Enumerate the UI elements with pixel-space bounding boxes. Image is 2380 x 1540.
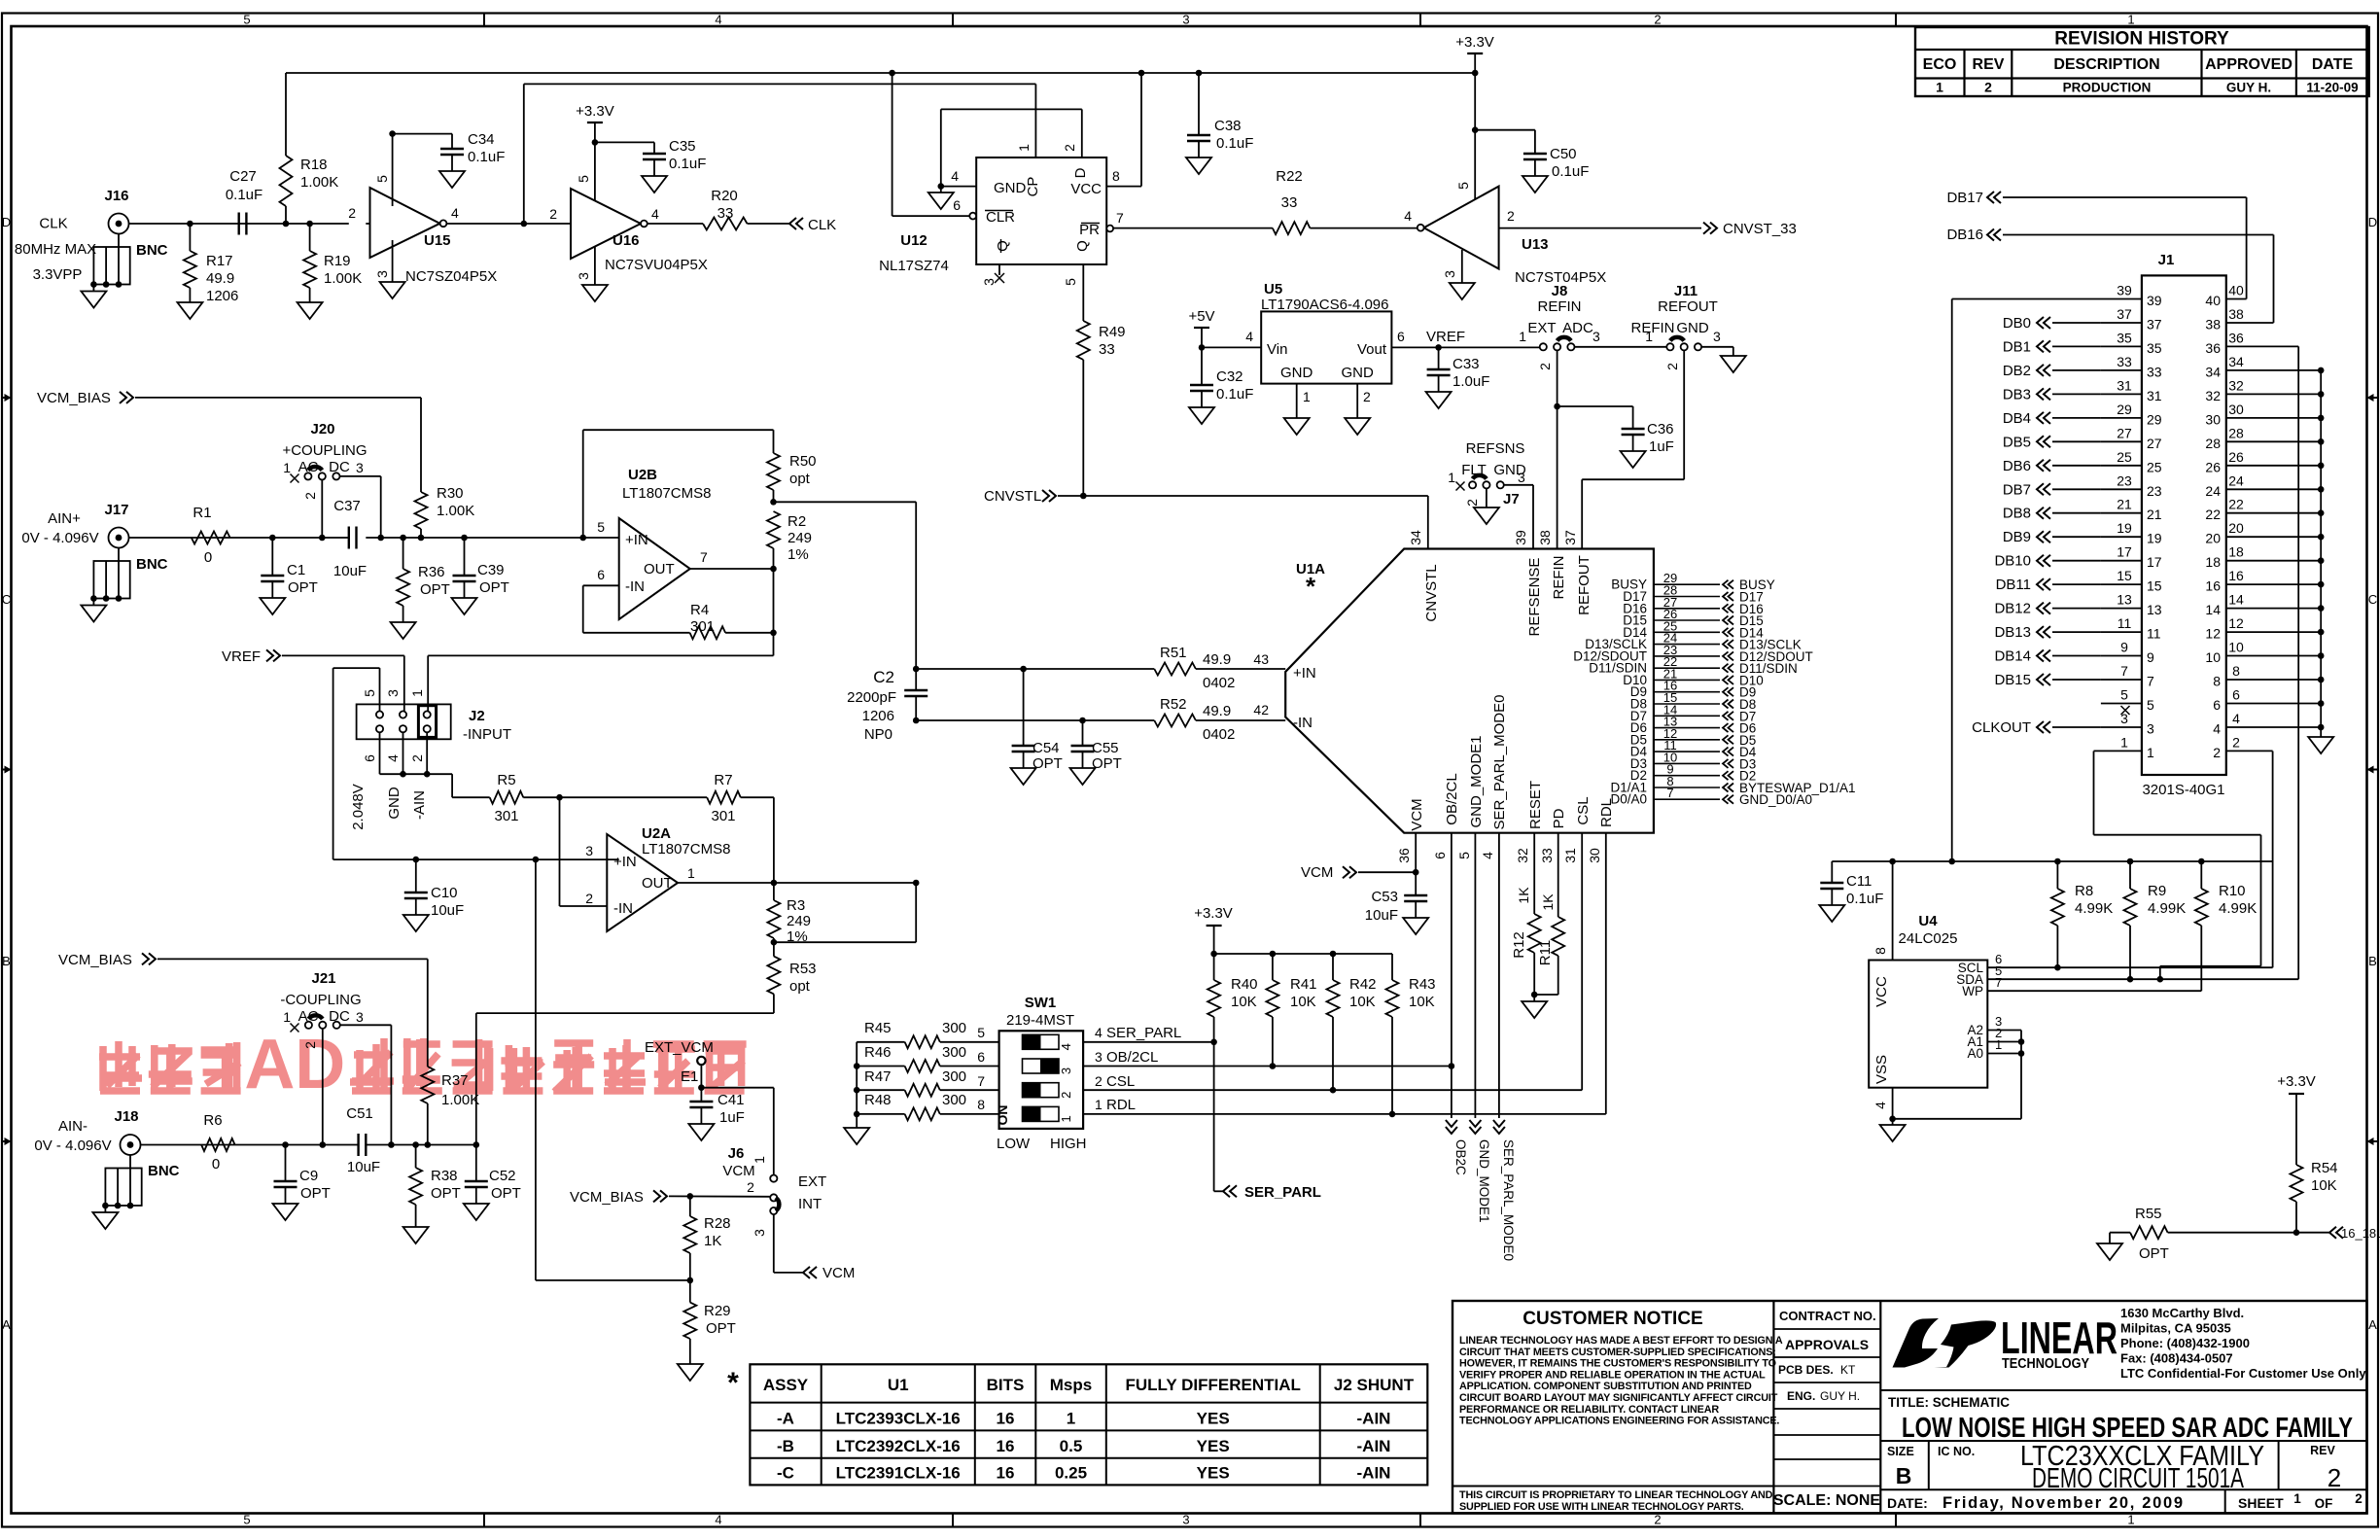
capacitor C54 xyxy=(1012,669,1063,772)
svg-text:2: 2 xyxy=(1654,1513,1661,1527)
svg-text:DB5: DB5 xyxy=(2003,434,2031,450)
svg-text:R47: R47 xyxy=(864,1068,892,1085)
pin 19 J1 left xyxy=(2003,520,2162,546)
svg-text:5: 5 xyxy=(1456,852,1472,859)
node C2 out junction xyxy=(913,880,920,887)
power symbol +3.3V R54 xyxy=(2277,1073,2316,1165)
svg-text:C53: C53 xyxy=(1371,889,1398,905)
svg-text:+5V: +5V xyxy=(1188,308,1214,325)
svg-text:4: 4 xyxy=(715,13,721,27)
pin 7 J1 left xyxy=(1994,663,2154,689)
wire +5V to U5 xyxy=(1202,346,1261,348)
svg-text:219-4MST: 219-4MST xyxy=(1006,1012,1074,1029)
svg-text:7: 7 xyxy=(977,1073,985,1089)
switch rocker 2 SW1 xyxy=(1023,1083,1074,1099)
svg-text:J7: J7 xyxy=(1503,491,1520,507)
svg-text:2200pF: 2200pF xyxy=(847,689,896,706)
svg-text:2: 2 xyxy=(302,492,318,500)
svg-text:R18: R18 xyxy=(300,157,328,173)
svg-text:0: 0 xyxy=(204,549,212,566)
ground U12 pin4 xyxy=(928,192,954,209)
svg-text:*: * xyxy=(1306,572,1316,601)
pin 4 SER_PARL_MODE0 U1A xyxy=(1480,695,1508,1118)
svg-text:1: 1 xyxy=(1645,329,1653,344)
wire VCM_BIAS middle xyxy=(157,959,428,1056)
svg-text:38: 38 xyxy=(2228,306,2244,322)
net label AIN+ input xyxy=(21,510,98,546)
pin 34 J1 right xyxy=(2205,354,2324,380)
svg-text:+IN: +IN xyxy=(625,532,648,548)
svg-text:4: 4 xyxy=(2232,711,2240,726)
svg-text:4.99K: 4.99K xyxy=(2148,900,2186,917)
resistor R29 xyxy=(683,1280,736,1364)
node J8-C36 junction xyxy=(1554,403,1560,410)
svg-text:opt: opt xyxy=(789,978,811,995)
svg-text:29: 29 xyxy=(2147,411,2162,427)
svg-text:36: 36 xyxy=(2205,340,2221,356)
svg-text:40: 40 xyxy=(2205,293,2221,308)
svg-text:0.1uF: 0.1uF xyxy=(226,187,262,203)
svg-text:40: 40 xyxy=(2228,283,2244,298)
pin 27 J1 left xyxy=(2003,425,2162,451)
svg-text:J1: J1 xyxy=(2158,252,2175,268)
title section xyxy=(1880,1390,2366,1444)
pin 32 J1 right xyxy=(2205,377,2324,403)
resistor R5 xyxy=(490,772,524,824)
net label CLK input xyxy=(15,216,96,284)
svg-text:0402: 0402 xyxy=(1203,726,1235,743)
svg-text:10uF: 10uF xyxy=(1365,907,1398,924)
svg-text:19: 19 xyxy=(2147,531,2162,546)
svg-text:CIRCUIT THAT MEETS CUSTOMER-SU: CIRCUIT THAT MEETS CUSTOMER-SUPPLIED SPE… xyxy=(1459,1347,1776,1358)
svg-text:1: 1 xyxy=(687,865,695,881)
net tag VREF to J2 xyxy=(222,648,280,665)
svg-text:R55: R55 xyxy=(2135,1206,2162,1222)
ground R17 xyxy=(177,302,202,319)
svg-text:REFOUT: REFOUT xyxy=(1576,555,1592,615)
svg-text:-AIN: -AIN xyxy=(1357,1410,1391,1428)
wire J1 pin2 vertical xyxy=(2272,752,2274,968)
pin +IN U1A xyxy=(1253,651,1315,682)
svg-text:34: 34 xyxy=(2205,364,2221,379)
svg-text:C37: C37 xyxy=(333,498,361,514)
svg-text:4: 4 xyxy=(1245,329,1253,344)
svg-text:1: 1 xyxy=(2120,734,2128,750)
svg-text:1uF: 1uF xyxy=(1649,438,1674,455)
svg-text:5: 5 xyxy=(576,175,591,183)
svg-text:16: 16 xyxy=(2205,578,2221,594)
pin 23 J1 left xyxy=(2003,472,2162,499)
svg-text:33: 33 xyxy=(1539,848,1555,863)
ground C11 xyxy=(1819,905,1844,922)
node CSL R42 xyxy=(1330,1087,1337,1094)
wire CLK after C27 xyxy=(366,223,369,225)
ADC U1A outline xyxy=(1285,549,1654,833)
node J2 pin2 common xyxy=(424,771,431,778)
pin 1 J1 left xyxy=(2094,734,2155,760)
node +5V junction xyxy=(1199,344,1206,351)
svg-text:REFSNS: REFSNS xyxy=(1466,440,1525,457)
svg-text:U15: U15 xyxy=(424,232,451,249)
svg-text:1: 1 xyxy=(1519,329,1526,344)
net tag VCM out xyxy=(803,1265,855,1281)
resistor R11 xyxy=(1537,893,1564,995)
svg-text:10: 10 xyxy=(2205,649,2221,665)
svg-text:EXT: EXT xyxy=(798,1173,826,1190)
svg-text:23: 23 xyxy=(2117,472,2132,488)
ground SW1 bus xyxy=(844,1128,869,1144)
svg-text:3: 3 xyxy=(385,689,401,697)
node R18-R19 junction xyxy=(306,221,313,227)
pin 20 J1 right xyxy=(2205,520,2324,546)
svg-text:1: 1 xyxy=(283,1009,291,1025)
switch rocker 3 SW1 xyxy=(1023,1059,1074,1074)
wire WP line xyxy=(1987,990,2201,992)
node rail R42 xyxy=(1330,951,1337,958)
svg-text:1K: 1K xyxy=(704,1233,721,1249)
svg-text:OPT: OPT xyxy=(1092,755,1122,772)
resistor R40 xyxy=(1207,976,1257,1042)
capacitor C50 xyxy=(1523,130,1589,180)
node CNVSTL-R49 junction xyxy=(1080,493,1087,500)
svg-text:+3.3V: +3.3V xyxy=(2277,1073,2316,1090)
title block outline xyxy=(1452,1301,2367,1513)
svg-text:7: 7 xyxy=(2120,663,2128,679)
svg-text:DB11: DB11 xyxy=(1996,577,2031,593)
wire U4 VCC pin8 xyxy=(1892,861,1894,961)
svg-text:1206: 1206 xyxy=(206,288,238,304)
svg-text:DATE:: DATE: xyxy=(1887,1495,1928,1511)
node C27-R18 junction xyxy=(283,221,290,227)
wire U12 CP pin1 xyxy=(1034,84,1036,157)
node RDL R43 xyxy=(1389,1111,1396,1118)
svg-text:1.00K: 1.00K xyxy=(300,174,338,191)
svg-text:35: 35 xyxy=(2147,340,2162,356)
op-amp U15 inverter xyxy=(348,175,497,285)
resistor R19 xyxy=(303,224,362,302)
zone tick marks bottom xyxy=(484,1514,1896,1527)
net tag VCM_BIAS top xyxy=(37,390,133,406)
ground R29 xyxy=(678,1364,703,1381)
capacitor C55 xyxy=(1071,720,1122,772)
ground R12 xyxy=(1522,1001,1547,1018)
wire SDA line xyxy=(1987,978,2298,980)
svg-text:29: 29 xyxy=(2117,402,2132,417)
svg-text:2: 2 xyxy=(1062,144,1077,152)
svg-text:R51: R51 xyxy=(1160,645,1187,661)
wire R5 to junction xyxy=(523,796,559,798)
svg-text:24: 24 xyxy=(2205,483,2221,499)
wire J11 gnd stub xyxy=(1732,347,1734,356)
pin 24 J1 right xyxy=(2205,472,2324,499)
svg-text:3: 3 xyxy=(1518,470,1525,485)
svg-text:30: 30 xyxy=(2228,402,2244,417)
flip-flop U12 NL17SZ74 xyxy=(951,144,1124,286)
svg-text:DC: DC xyxy=(329,459,350,475)
svg-text:C1: C1 xyxy=(287,562,305,578)
svg-text:1: 1 xyxy=(1067,1410,1075,1428)
svg-text:4: 4 xyxy=(385,754,401,762)
node bus R46 xyxy=(854,1063,860,1069)
capacitor C9 xyxy=(274,1145,331,1205)
svg-text:1: 1 xyxy=(2127,1513,2134,1527)
wire SCL line xyxy=(1987,966,2272,968)
svg-text:1: 1 xyxy=(2293,1491,2301,1506)
node J2 pin4 common xyxy=(400,771,406,778)
capacitor C11 xyxy=(1820,861,1883,907)
pin 26 J1 right xyxy=(2205,449,2324,475)
svg-text:0.5: 0.5 xyxy=(1060,1437,1083,1455)
test point E1 EXT_VCM xyxy=(645,1039,714,1088)
svg-text:12: 12 xyxy=(2205,626,2221,642)
resistor R49 xyxy=(1077,321,1126,496)
svg-text:3: 3 xyxy=(356,460,364,475)
pin 9 D2 U1A right xyxy=(1630,762,1757,784)
svg-text:1: 1 xyxy=(2127,13,2134,27)
node U4 pin4 junction xyxy=(1889,1116,1896,1123)
svg-text:16: 16 xyxy=(997,1437,1015,1455)
svg-text:REFOUT: REFOUT xyxy=(1658,298,1718,315)
svg-text:5: 5 xyxy=(2147,697,2154,713)
svg-text:3: 3 xyxy=(1442,270,1457,278)
svg-text:2: 2 xyxy=(1664,363,1680,370)
svg-text:3: 3 xyxy=(1713,329,1721,344)
switch rocker 4 SW1 xyxy=(1023,1034,1074,1050)
svg-text:49.9: 49.9 xyxy=(1203,651,1231,668)
svg-text:R4: R4 xyxy=(690,602,709,618)
svg-text:CP: CP xyxy=(1025,177,1041,197)
svg-text:R38: R38 xyxy=(431,1168,458,1184)
svg-text:1.00K: 1.00K xyxy=(441,1092,479,1108)
svg-text:GUY H.: GUY H. xyxy=(2226,81,2271,95)
connector J18 BNC jack xyxy=(92,1135,141,1229)
watermark red text xyxy=(99,1026,747,1103)
capacitor C35 xyxy=(643,138,706,176)
net flag SER_PARL_MODE0 down xyxy=(1493,1120,1516,1261)
node rail R10 xyxy=(2198,858,2205,865)
net tag CNVSTL xyxy=(984,488,1056,505)
svg-text:5: 5 xyxy=(597,519,605,535)
ground R55 xyxy=(2097,1233,2122,1260)
node OB2CL R41 xyxy=(1270,1063,1277,1069)
wire U5 gnd pin1 xyxy=(1296,384,1298,418)
svg-text:C39: C39 xyxy=(477,562,505,578)
svg-text:REV: REV xyxy=(1973,56,2005,73)
ground U5 pin1 xyxy=(1284,418,1310,435)
pin 22 D11/SDIN U1A right xyxy=(1589,654,1798,676)
svg-text:J16: J16 xyxy=(104,188,128,204)
wire U15 out to U16 xyxy=(446,223,571,225)
ground C53 xyxy=(1403,918,1428,934)
svg-text:VCM_BIAS: VCM_BIAS xyxy=(58,952,132,968)
svg-text:7: 7 xyxy=(2147,674,2154,689)
svg-text:D: D xyxy=(295,1026,345,1103)
node A0 junction xyxy=(2018,1050,2025,1057)
wire U2A +IN long vertical xyxy=(536,859,690,1280)
svg-text:LOW: LOW xyxy=(997,1136,1031,1152)
svg-text:IC NO.: IC NO. xyxy=(1938,1445,1975,1458)
svg-text:3: 3 xyxy=(752,1229,767,1237)
svg-text:INT: INT xyxy=(798,1196,822,1212)
wire R4 to node xyxy=(725,632,773,634)
svg-text:C50: C50 xyxy=(1550,146,1577,162)
svg-text:C41: C41 xyxy=(717,1092,745,1108)
svg-text:CLK: CLK xyxy=(808,217,836,233)
svg-text:4: 4 xyxy=(2213,721,2221,737)
resistor R22 xyxy=(1273,168,1311,234)
svg-text:Vin: Vin xyxy=(1267,341,1287,358)
capacitor C41 xyxy=(689,1088,744,1126)
svg-text:0.1uF: 0.1uF xyxy=(1552,163,1589,180)
node pin1-SDA junction xyxy=(2157,976,2164,983)
svg-text:C: C xyxy=(2,592,11,607)
wire J20 pin3 jog xyxy=(340,476,381,538)
svg-text:J18: J18 xyxy=(114,1108,138,1125)
wire U16 power to C35 xyxy=(595,141,654,143)
wire U13 pin3 gnd xyxy=(1461,250,1463,283)
pin 8 D1/A1 U1A right xyxy=(1610,774,1855,795)
svg-text:R8: R8 xyxy=(2075,883,2093,899)
node C2 top junction xyxy=(913,666,920,673)
wire J11 pin2 down xyxy=(1683,350,1685,479)
net tag DB16 xyxy=(1946,227,2273,323)
svg-text:DB8: DB8 xyxy=(2003,506,2031,522)
svg-text:21: 21 xyxy=(2117,497,2132,512)
svg-text:J21: J21 xyxy=(311,970,335,987)
svg-text:C32: C32 xyxy=(1216,368,1243,385)
svg-text:BITS: BITS xyxy=(987,1376,1025,1394)
svg-text:DB16: DB16 xyxy=(1946,227,1983,243)
wire AIN+ after C37 xyxy=(366,537,618,539)
capacitor C52 xyxy=(465,1145,521,1205)
node +3.3V rail CLR drop xyxy=(889,70,895,77)
svg-text:OPT: OPT xyxy=(300,1185,331,1202)
svg-text:LTC2391CLX-16: LTC2391CLX-16 xyxy=(836,1464,961,1483)
customer notice text xyxy=(1452,1309,1783,1513)
node C10 junction xyxy=(413,857,420,863)
svg-text:4.99K: 4.99K xyxy=(2075,900,2113,917)
wire R22 to U13 xyxy=(1310,227,1417,229)
net tag VCM_BIAS bottom xyxy=(570,1189,667,1206)
svg-text:DESCRIPTION: DESCRIPTION xyxy=(2053,56,2159,73)
revision history table xyxy=(1915,27,2369,96)
svg-text:1630 McCarthy Blvd.: 1630 McCarthy Blvd. xyxy=(2120,1306,2244,1320)
svg-text:31: 31 xyxy=(1562,848,1578,863)
svg-text:25: 25 xyxy=(2147,459,2162,474)
node R7-R3 out junction xyxy=(771,880,778,887)
svg-text:1: 1 xyxy=(2147,745,2154,760)
power symbol +3.3V U16 xyxy=(576,103,614,142)
resistor R2 xyxy=(767,511,812,569)
svg-text:1: 1 xyxy=(1936,80,1943,95)
svg-text:36: 36 xyxy=(2228,330,2244,345)
svg-text:E1: E1 xyxy=(681,1068,698,1085)
pin 3 J1 left xyxy=(1972,711,2154,737)
svg-text:C35: C35 xyxy=(669,138,696,155)
svg-text:301: 301 xyxy=(494,808,518,824)
svg-text:R12: R12 xyxy=(1511,931,1527,959)
wire R51 line xyxy=(916,668,1154,670)
svg-text:8: 8 xyxy=(2213,674,2221,689)
wire R12 gnd stub xyxy=(1533,995,1535,1001)
svg-text:C54: C54 xyxy=(1032,740,1060,756)
svg-text:39: 39 xyxy=(2147,293,2162,308)
svg-text:2: 2 xyxy=(1464,499,1480,507)
svg-text:-C: -C xyxy=(777,1464,794,1483)
pin 33 PD U1A xyxy=(1539,808,1567,917)
ground J7 xyxy=(1474,507,1499,524)
pin -IN U1A xyxy=(1253,702,1312,731)
svg-text:0.25: 0.25 xyxy=(1055,1464,1087,1483)
svg-text:10uF: 10uF xyxy=(347,1159,380,1175)
svg-text:5: 5 xyxy=(1455,182,1471,190)
wire out node vertical xyxy=(773,569,775,655)
node C55 junction xyxy=(1079,717,1086,724)
svg-text:LOW NOISE HIGH SPEED SAR ADC F: LOW NOISE HIGH SPEED SAR ADC FAMILY xyxy=(1902,1413,2353,1444)
wire SER_PARL row xyxy=(1083,1041,1214,1043)
svg-text:D0/A0: D0/A0 xyxy=(1610,792,1647,807)
svg-text:YES: YES xyxy=(1197,1410,1230,1428)
svg-text:SER_PARL: SER_PARL xyxy=(1244,1184,1321,1201)
resistor R9 xyxy=(2124,861,2187,979)
svg-text:4: 4 xyxy=(1059,1043,1073,1050)
svg-text:OPT: OPT xyxy=(431,1185,461,1202)
svg-text:2: 2 xyxy=(2213,745,2221,760)
svg-text:2: 2 xyxy=(2355,1491,2362,1506)
capacitor C36 xyxy=(1622,406,1674,455)
svg-text:33: 33 xyxy=(2147,364,2162,379)
svg-text:REV: REV xyxy=(2310,1444,2335,1457)
svg-text:1uF: 1uF xyxy=(719,1109,745,1126)
node SCL R8 xyxy=(2054,964,2061,971)
svg-text:REVISION HISTORY: REVISION HISTORY xyxy=(2054,29,2229,50)
resistor R36 xyxy=(397,538,450,622)
capacitor C38 xyxy=(1187,73,1253,157)
resistor R8 xyxy=(2051,861,2113,967)
net tag CLK out xyxy=(789,217,836,233)
pin 37 J1 left xyxy=(2003,306,2162,332)
svg-text:DB14: DB14 xyxy=(1994,648,2031,665)
svg-text:VCM: VCM xyxy=(822,1265,855,1281)
svg-text:SER_PARL: SER_PARL xyxy=(1106,1025,1181,1041)
svg-text:ECO: ECO xyxy=(1923,56,1957,73)
svg-text:ASSY: ASSY xyxy=(763,1376,809,1394)
svg-text:Friday, November 20, 2009: Friday, November 20, 2009 xyxy=(1942,1494,2183,1512)
wire U12 D pin2 horizontal xyxy=(941,108,1082,110)
svg-text:CONTRACT NO.: CONTRACT NO. xyxy=(1779,1309,1876,1323)
svg-text:26: 26 xyxy=(2228,449,2244,465)
pin 6 J1 right xyxy=(2213,687,2324,714)
svg-text:6: 6 xyxy=(1397,329,1405,344)
svg-text:LT1790ACS6-4.096: LT1790ACS6-4.096 xyxy=(1261,297,1388,313)
wire U5 gnd pin2 xyxy=(1356,384,1358,418)
node J20 pin3 junction xyxy=(377,535,384,542)
pin 2 J1 right xyxy=(2213,734,2272,760)
capacitor C53 xyxy=(1365,872,1427,924)
svg-text:DB9: DB9 xyxy=(2003,529,2031,545)
node VCM_BIAS R28 xyxy=(687,1193,694,1200)
connector J1 3201S-40G1 xyxy=(2142,252,2226,798)
svg-text:OUT: OUT xyxy=(642,875,673,892)
wire J1 pin1 path xyxy=(2094,752,2261,980)
svg-text:1.00K: 1.00K xyxy=(437,503,474,519)
svg-text:AIN-: AIN- xyxy=(58,1118,87,1135)
net tag SER_PARL bottom xyxy=(1223,1184,1321,1201)
svg-text:C55: C55 xyxy=(1092,740,1119,756)
node U15 out jog junction xyxy=(521,221,528,227)
svg-text:16_18L: 16_18L xyxy=(2341,1226,2380,1241)
svg-text:30: 30 xyxy=(2205,411,2221,427)
